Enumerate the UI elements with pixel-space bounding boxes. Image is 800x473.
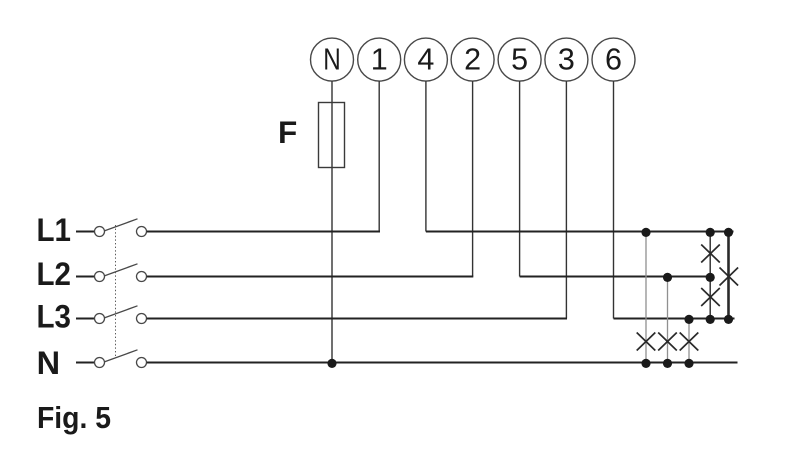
terminal 3	[545, 38, 588, 81]
junction N bus / terminal N wire	[327, 359, 336, 368]
svg-text:Fig. 5: Fig. 5	[37, 400, 111, 435]
junction L3 / load L2-L3	[706, 315, 715, 324]
svg-text:4: 4	[417, 43, 434, 77]
load X L1-L3	[720, 268, 739, 286]
svg-text:F: F	[278, 114, 297, 150]
terminal N	[311, 38, 354, 81]
switch S1 pole L1	[76, 219, 147, 237]
wire terminal 4 to L1 bus	[425, 81, 427, 231]
svg-text:2: 2	[464, 43, 481, 77]
svg-text:N: N	[37, 345, 60, 381]
fuse F	[278, 103, 345, 168]
junction L2 / load L1-L2	[706, 273, 715, 282]
wire terminal 5 to L2 bus	[519, 81, 521, 276]
wire terminal 1 to L1 bus	[378, 81, 380, 231]
junction L1 / load L1-N	[641, 228, 650, 237]
wire L3 bus left segment	[147, 318, 567, 320]
wire load L1-L3	[727, 232, 730, 319]
switch S1 pole N	[76, 350, 147, 368]
terminal 5	[498, 38, 541, 81]
junction N / load L1-N	[641, 359, 650, 368]
wire terminal 3 to L3 bus	[565, 81, 567, 318]
junction L1 / load L1-L2	[706, 228, 715, 237]
terminal 4	[404, 38, 447, 81]
wire terminal N to neutral bus	[331, 81, 333, 362]
svg-text:3: 3	[558, 43, 575, 77]
svg-text:1: 1	[371, 43, 388, 77]
load X L2-N	[658, 333, 677, 351]
wire L2 bus left segment	[147, 276, 474, 278]
junction L3 / load L3-N	[684, 315, 693, 324]
svg-text:5: 5	[511, 43, 528, 77]
switch S1 linkage (dashed)	[115, 225, 117, 357]
svg-text:L3: L3	[37, 299, 72, 335]
junction N / load L3-N	[684, 359, 693, 368]
switch S1 pole L3	[76, 306, 147, 324]
svg-text:L1: L1	[37, 212, 72, 248]
load X L1-N	[637, 333, 656, 351]
wire load L2-N	[667, 277, 669, 363]
switch S1 pole L2	[76, 264, 147, 282]
svg-text:L2: L2	[37, 256, 72, 292]
junction L1 / load L1-L3	[724, 228, 733, 237]
svg-text:N: N	[323, 43, 341, 77]
terminal 2	[451, 38, 494, 81]
junction L2 / load L2-N	[663, 273, 672, 282]
wire terminal 6 to L3 bus	[613, 81, 615, 318]
junction N / load L2-N	[663, 359, 672, 368]
wire N bus	[147, 362, 738, 364]
terminal 1	[358, 38, 401, 81]
junction L3 / load L1-L3	[724, 315, 733, 324]
terminal 6	[592, 38, 635, 81]
wire L2 bus right segment	[520, 276, 714, 278]
load X L3-N	[680, 333, 699, 351]
wire L3 bus right segment	[614, 318, 735, 320]
wire L1 bus left segment	[147, 231, 380, 233]
wire terminal 2 to L2 bus	[472, 81, 474, 276]
wire L1 bus right segment	[426, 231, 734, 233]
load X L2-L3	[701, 288, 720, 306]
wire load L1-N	[645, 232, 647, 363]
load X L1-L2	[701, 245, 720, 263]
wire load L3-N	[688, 319, 690, 363]
wire load L1-L2-L3	[709, 232, 711, 319]
svg-text:6: 6	[605, 43, 622, 77]
